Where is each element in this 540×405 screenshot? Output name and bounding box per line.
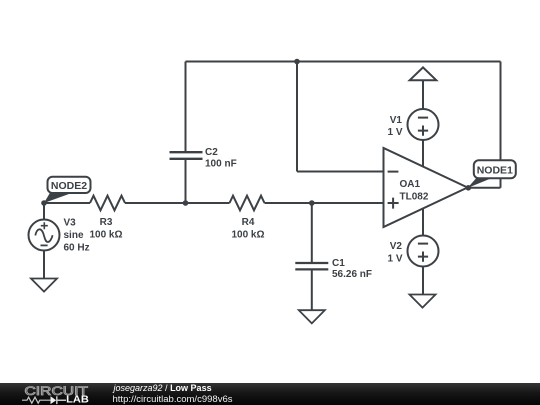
wire R4 to non-inverting input [265, 202, 384, 204]
svg-text:56.26 nF: 56.26 nF [332, 269, 372, 280]
node NODE2 flag box [48, 177, 91, 193]
wire feedback mid vertical to inverting input [296, 62, 298, 172]
op-amp OA1 minus input sign [388, 171, 399, 173]
wire V1 flag stem [422, 80, 424, 109]
node NODE2 pointer [44, 193, 71, 203]
source V2 circle [408, 236, 439, 267]
source V3 sine [35, 229, 52, 242]
logo diode [51, 396, 57, 404]
svg-text:sine: sine [64, 230, 84, 241]
capacitor C2 plates [170, 152, 203, 159]
svg-text:http://circuitlab.com/c998v6s: http://circuitlab.com/c998v6s [113, 394, 234, 404]
wire R3 to R4 [125, 202, 230, 204]
ground below C1 [299, 310, 325, 323]
wire op-amp V- to V2 [422, 208, 424, 235]
svg-text:C2: C2 [205, 147, 218, 158]
node junction dot feedback top [294, 59, 300, 65]
source V2 plus [418, 252, 428, 262]
svg-text:R4: R4 [242, 217, 255, 228]
svg-text:NODE1: NODE1 [477, 165, 513, 177]
op-amp OA1 triangle [384, 148, 468, 227]
wire C2 branch upper [185, 62, 187, 152]
wire op-amp output horizontal [468, 187, 501, 189]
footer bar [0, 383, 540, 405]
node junction dot op-amp output [466, 185, 472, 191]
svg-text:V1: V1 [390, 115, 403, 126]
svg-text:OA1: OA1 [400, 179, 421, 190]
logo resistor zigzag [22, 397, 51, 403]
source V3 minus [41, 244, 48, 246]
wire V2 to ground [422, 267, 424, 295]
wire right vertical (output to feedback) [500, 62, 502, 188]
source V1 plus [418, 126, 428, 136]
svg-text:NODE2: NODE2 [51, 180, 87, 192]
source V2 minus [418, 243, 428, 245]
capacitor C1 plates [295, 263, 328, 269]
wire V3 to ground [43, 251, 45, 279]
wire C1 branch upper [311, 203, 313, 262]
svg-text:C1: C1 [332, 258, 345, 269]
node junction dot NODE2 [41, 200, 47, 206]
resistor R4 [230, 196, 265, 211]
wire V3 top [43, 203, 45, 220]
node NODE1 pointer [468, 178, 492, 188]
svg-text:1 V: 1 V [387, 254, 402, 265]
svg-text:V2: V2 [390, 241, 403, 252]
svg-text:60 Hz: 60 Hz [64, 243, 90, 254]
source V3 plus [41, 222, 48, 229]
node NODE1 flag box [474, 160, 516, 178]
resistor R3 [90, 196, 125, 211]
ground below V3 [31, 279, 57, 292]
svg-text:1 V: 1 V [387, 127, 402, 138]
wire C2 branch lower [185, 160, 187, 203]
wire inverting input horizontal [297, 171, 384, 173]
wire main V3 to R3 [44, 202, 90, 204]
svg-text:R3: R3 [100, 217, 113, 228]
node junction dot C2/main [183, 200, 189, 206]
source V1 minus [418, 117, 428, 119]
svg-text:100 kΩ: 100 kΩ [89, 230, 122, 241]
ground below V2 [410, 295, 436, 308]
wire V1 to op-amp V+ [422, 140, 424, 167]
node junction dot C1/main [309, 200, 315, 206]
svg-text:100 kΩ: 100 kΩ [231, 230, 264, 241]
op-amp OA1 plus input sign [388, 198, 399, 209]
svg-text:josegarza92 / Low Pass: josegarza92 / Low Pass [113, 383, 212, 393]
svg-text:LAB: LAB [66, 394, 89, 405]
source V1 circle [408, 109, 439, 140]
power flag above V1 [410, 67, 437, 80]
source V3 circle [29, 220, 60, 251]
svg-text:TL082: TL082 [400, 192, 429, 203]
svg-text:V3: V3 [64, 218, 77, 229]
svg-text:100 nF: 100 nF [205, 158, 237, 169]
wire top feedback horizontal [186, 61, 501, 63]
wire C1 branch lower [311, 270, 313, 310]
